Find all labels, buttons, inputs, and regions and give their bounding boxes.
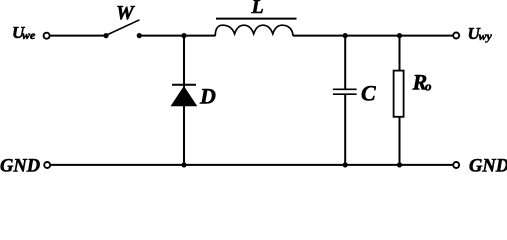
switch W contact right (dot) bbox=[137, 33, 142, 38]
label Uwe bbox=[12, 23, 36, 42]
terminal output (open circle) bbox=[453, 33, 459, 39]
label Ro bbox=[412, 70, 433, 95]
wire switch to inductor bbox=[139, 35, 215, 37]
wire diode branch bbox=[183, 36, 185, 165]
terminal input (open circle) bbox=[44, 33, 50, 39]
node diode bottom (junction dot) bbox=[181, 162, 186, 167]
svg-text:GND: GND bbox=[0, 156, 40, 172]
node capacitor top (junction dot) bbox=[343, 33, 348, 38]
wire capacitor bottom stub bbox=[344, 94, 346, 165]
node resistor bottom (junction dot) bbox=[397, 162, 402, 167]
node capacitor bottom (junction dot) bbox=[343, 162, 348, 167]
switch W blade bbox=[106, 20, 140, 36]
switch W contact left (dot) bbox=[103, 33, 108, 38]
node diode top (junction dot) bbox=[181, 33, 186, 38]
diode D (anode triangle) bbox=[171, 86, 198, 106]
inductor L (coil) bbox=[215, 25, 293, 36]
svg-text:we: we bbox=[22, 28, 36, 42]
capacitor C plate top bbox=[333, 88, 357, 90]
svg-text:L: L bbox=[251, 0, 264, 18]
wire ground rail bbox=[50, 164, 453, 166]
node resistor top (junction dot) bbox=[397, 33, 402, 38]
svg-text:D: D bbox=[199, 84, 216, 109]
wire resistor bottom stub bbox=[399, 117, 401, 165]
resistor Ro (rectangle) bbox=[394, 71, 404, 117]
terminal ground left (open circle) bbox=[44, 162, 50, 168]
wire input to switch bbox=[50, 35, 106, 37]
svg-text:o: o bbox=[425, 78, 432, 93]
wire inductor to output terminal bbox=[293, 35, 453, 37]
svg-text:C: C bbox=[361, 81, 376, 106]
terminal ground right (open circle) bbox=[453, 162, 459, 168]
svg-text:GND: GND bbox=[469, 156, 507, 172]
inductor L core line bbox=[216, 18, 297, 20]
svg-text:W: W bbox=[116, 2, 135, 24]
svg-text:wy: wy bbox=[479, 29, 493, 43]
diode D (cathode bar) bbox=[172, 84, 196, 86]
capacitor C plate bottom bbox=[333, 93, 357, 95]
wire resistor top stub bbox=[399, 36, 401, 71]
wire capacitor top stub bbox=[344, 36, 346, 90]
label Uwy bbox=[468, 24, 493, 43]
